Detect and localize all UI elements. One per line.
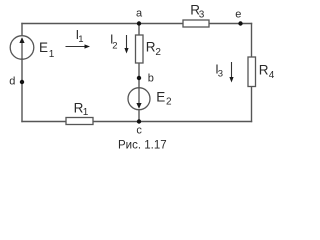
svg-text:Рис. 1.17: Рис. 1.17 (118, 139, 167, 151)
label R1 (74, 100, 89, 118)
svg-text:R: R (146, 40, 156, 55)
current arrow I2 (points down) (124, 35, 128, 54)
source E2 circle (128, 88, 150, 110)
resistor R3 (top rail) (183, 20, 209, 27)
node d junction dot (20, 80, 24, 84)
svg-text:3: 3 (218, 69, 223, 80)
svg-text:d: d (9, 75, 15, 87)
source E1 circle (10, 36, 34, 60)
node b junction dot (137, 76, 141, 80)
label I2 (110, 33, 118, 52)
label I1 (76, 28, 84, 45)
wire: middle vertical branch a-b-c (138, 24, 140, 122)
svg-text:2: 2 (155, 47, 161, 58)
svg-text:2: 2 (112, 41, 117, 52)
svg-text:E: E (39, 40, 48, 55)
svg-text:3: 3 (199, 9, 205, 20)
source E1 arrowhead (points up) (19, 37, 24, 43)
label R3 (190, 2, 205, 20)
svg-text:e: e (235, 9, 241, 21)
source E2 arrowhead (points down) (136, 103, 141, 109)
svg-text:c: c (136, 125, 142, 137)
label E2 (156, 89, 172, 107)
resistor R1 (bottom rail) (66, 118, 93, 125)
source E1 internal arrow shaft (21, 38, 23, 59)
svg-text:4: 4 (269, 70, 275, 81)
label I3 (215, 62, 223, 79)
wire: right vertical branch e-R4-bottom (251, 24, 253, 122)
svg-text:R: R (259, 63, 269, 78)
node c junction dot (137, 119, 141, 123)
svg-text:b: b (148, 73, 154, 85)
label R2 (146, 40, 162, 58)
wire: top rail from top-left corner to top-right corner (22, 23, 252, 25)
resistor R2 (middle branch) (136, 35, 144, 63)
wire: bottom rail from bottom-left corner to bottom-right corner (22, 121, 252, 123)
svg-text:E: E (156, 89, 165, 104)
wire: left vertical branch (through E1, node d) (21, 24, 23, 122)
svg-text:2: 2 (166, 97, 172, 108)
current arrow I3 (points down) (229, 62, 233, 83)
resistor R4 (right branch) (248, 57, 256, 87)
svg-text:1: 1 (83, 107, 89, 118)
node a junction dot (137, 21, 141, 25)
node e junction dot (238, 21, 242, 25)
svg-text:a: a (136, 7, 143, 19)
svg-text:1: 1 (49, 49, 55, 60)
svg-text:1: 1 (78, 34, 83, 45)
source E2 internal arrow shaft (138, 88, 140, 107)
current arrow I1 (points right) (66, 44, 91, 48)
label R4 (259, 63, 275, 81)
label E1 (39, 40, 55, 60)
